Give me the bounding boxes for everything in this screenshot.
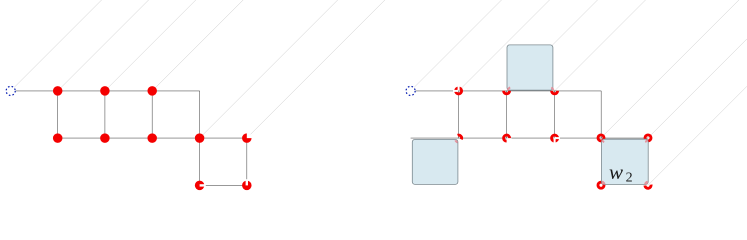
pink wedge: ring R row1 under S1 bottom-left [508, 88, 510, 91]
wire: left ray from node E row2 [200, 0, 338, 138]
node B row2: red dot [53, 133, 63, 143]
notch: white S slot on ring S row2 [554, 138, 556, 143]
node D row1: red dot [147, 86, 157, 96]
wire: right ray from blue node P [414, 0, 501, 87]
wire: right ray from node U row2 [648, 39, 747, 138]
pink wedge: ring U row2 under W2 top-right [645, 140, 647, 142]
pink wedge: ring T row3 under W2 bottom-left [602, 181, 606, 184]
wire: left ray from node B [58, 0, 149, 91]
node S row1: open red ring (bottom half under S1) [552, 91, 558, 94]
square S2: light blue cell rows2-3 cols P-Q [412, 139, 458, 184]
node Q row1: open red ring [456, 88, 462, 94]
svg-text:2: 2 [626, 171, 633, 186]
notch: white NE quarter on node F row2 [247, 133, 253, 139]
node Q row2: open red ring (NE arc, rest under S2) [458, 135, 462, 139]
wire: right vertical R rows1-2 [506, 91, 508, 138]
wire: right row2 horizontal line [411, 137, 649, 139]
node A: dotted blue open circle (left) [6, 86, 15, 95]
notch: white E slot on node E row3 [200, 184, 206, 186]
square S1: light blue cell above row1 [507, 45, 553, 90]
wire: left vertical E rows2-3 [199, 138, 201, 185]
wire: right vertical Q rows1-2 [458, 91, 460, 138]
node U row3: open red ring (bottom arc) [645, 185, 651, 189]
node C row2: red dot [100, 133, 110, 143]
notch: white SE quarter on ring R row2 [507, 138, 512, 143]
wire: right ray from node S row1 [555, 0, 646, 91]
wire: left ray from node C [105, 0, 196, 91]
wire: left vertical F rows2-3 [246, 138, 248, 185]
wire: right vertical S rows1-2 [554, 91, 556, 138]
wire: left ray from node D [152, 0, 243, 91]
wire: left ray from blue node A [14, 0, 101, 87]
wire: right vertical T rows1-2 [600, 91, 602, 138]
node T row3: open red ring [598, 182, 604, 188]
node B row1: red dot [53, 86, 63, 96]
node R row1: open red ring (bottom half under S1) [504, 91, 510, 94]
pink wedge: ring T row2 under W2 top-left [602, 140, 604, 142]
notch: white N slot on node F row3 [246, 179, 248, 185]
node F row3: red dot [242, 181, 252, 191]
pink wedge: ring S row1 under S1 bottom-right [551, 88, 553, 90]
node E row3: red dot [195, 181, 205, 191]
node T row2: open red ring [598, 135, 604, 141]
wire: left row3 horizontal line [200, 184, 247, 186]
wire: left row2 horizontal line [58, 137, 247, 139]
wire: left vertical C rows1-2 [104, 91, 106, 138]
wire: left vertical D rows1-2 [151, 91, 153, 138]
pink wedge: ring Q row2 under S2 top-right [455, 140, 457, 142]
pink wedge: ring U row3 under W2 bottom-right [644, 181, 648, 184]
node P: dotted blue open circle (right) [406, 86, 415, 95]
node E row2: red dot [195, 133, 205, 143]
wire: right ray from node Q row1 [459, 0, 550, 91]
notch: white W slot on ring Q row1 [453, 90, 458, 92]
wire: left vertical B rows1-2 [57, 91, 59, 138]
notch: white N slot on ring Q row1 [458, 85, 460, 90]
node F row2: red dot [242, 133, 252, 143]
wire: right ray from node T row2 [601, 0, 739, 138]
node R row2: open red ring [504, 135, 510, 141]
node S row2: open red ring [552, 135, 558, 141]
wire: left ray from node F row2 [247, 0, 385, 138]
wire: left row1 horizontal line [15, 90, 199, 92]
notch: white E slot on ring S row2 [555, 137, 560, 139]
wire: left vertical E rows1-2 [199, 91, 201, 138]
svg-text:w: w [609, 160, 623, 184]
wire: right row1 horizontal line [415, 90, 601, 92]
wire: right ray from node U row3 [648, 86, 747, 185]
node U row2: open red ring [645, 135, 651, 141]
node D row2: red dot [147, 133, 157, 143]
square W2: light blue weighted cell rows2-3 cols T-U [602, 139, 649, 184]
wire: right ray from node R row1 (emerges above S1) [507, 0, 598, 91]
node C row1: red dot [100, 86, 110, 96]
